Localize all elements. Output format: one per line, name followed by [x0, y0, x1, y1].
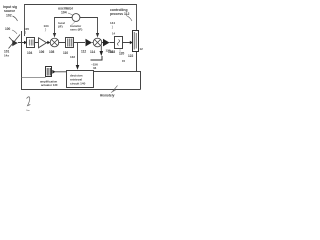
svg-text:sens (IF): sens (IF) — [70, 28, 82, 32]
svg-text:144: 144 — [110, 21, 115, 25]
amplification actuator box HB hatched — [46, 67, 52, 77]
svg-text:15: 15 — [122, 59, 126, 63]
wire — [91, 42, 94, 44]
wire lower-left horizontal into amp box — [22, 77, 46, 79]
mixer M2 circle with X — [93, 38, 102, 47]
wire osc to mixer2 — [80, 18, 98, 34]
wire right lower vertical — [137, 52, 141, 90]
svg-text:(IF): (IF) — [58, 25, 63, 29]
svg-text:134: 134 — [44, 24, 49, 28]
svg-text:process 112: process 112 — [110, 12, 130, 16]
mixer M1 circle with X — [50, 38, 59, 47]
svg-text:Remotely: Remotely — [100, 94, 115, 98]
wire top feedback loop — [25, 5, 137, 37]
svg-text:source: source — [4, 9, 15, 13]
corner wire under branch — [91, 56, 103, 60]
svg-text:34: 34 — [93, 66, 97, 70]
oscillator O1 — [72, 14, 80, 22]
wire osc to mixer1 — [55, 18, 73, 34]
arrow from HB to decision box — [52, 70, 55, 74]
wire — [58, 42, 66, 44]
output transducer TB hatched tall box — [133, 31, 139, 52]
svg-text:104: 104 — [61, 11, 67, 15]
svg-text:actuator 130: actuator 130 — [41, 83, 58, 87]
svg-text:14x: 14x — [4, 54, 9, 58]
leader from transfer label to oscillator — [72, 22, 76, 25]
svg-text:114: 114 — [90, 50, 95, 54]
svg-text:105: 105 — [24, 27, 29, 31]
wire — [74, 42, 85, 44]
antenna input symbol — [9, 35, 21, 49]
amplifier A1 outline triangle — [39, 38, 47, 48]
svg-text:circuit 140: circuit 140 — [70, 82, 86, 86]
wire to output — [123, 42, 130, 44]
wire decision box to right junction — [94, 71, 137, 73]
svg-text:102: 102 — [6, 14, 12, 18]
svg-text:118: 118 — [110, 50, 115, 54]
decision box DB — [67, 71, 94, 88]
svg-text:112: 112 — [81, 50, 86, 54]
svg-text:108: 108 — [49, 50, 55, 54]
svg-text:132: 132 — [70, 55, 75, 59]
figure number squiggle 2 — [27, 97, 31, 106]
box B1 — [27, 38, 35, 48]
box B3 with glyph — [115, 37, 123, 49]
svg-text:14: 14 — [112, 32, 116, 36]
wire left lower vertical — [22, 31, 141, 90]
wire leader from input label — [13, 16, 18, 21]
svg-text:110: 110 — [63, 51, 68, 55]
svg-text:122: 122 — [128, 54, 134, 58]
wire — [47, 42, 49, 44]
box B2 with marks — [66, 38, 74, 48]
svg-text:12: 12 — [140, 47, 144, 51]
svg-text:100: 100 — [5, 27, 11, 31]
wire chain drop into DB — [77, 43, 79, 66]
wire — [35, 42, 38, 44]
svg-text:106: 106 — [39, 50, 45, 54]
tick arrow on bottom wire — [111, 86, 118, 93]
diode D2 filled arrow — [101, 42, 103, 44]
diode D1 filled arrow — [86, 39, 93, 47]
branch down from chain with arrow — [100, 46, 102, 52]
svg-text:104: 104 — [27, 51, 33, 55]
